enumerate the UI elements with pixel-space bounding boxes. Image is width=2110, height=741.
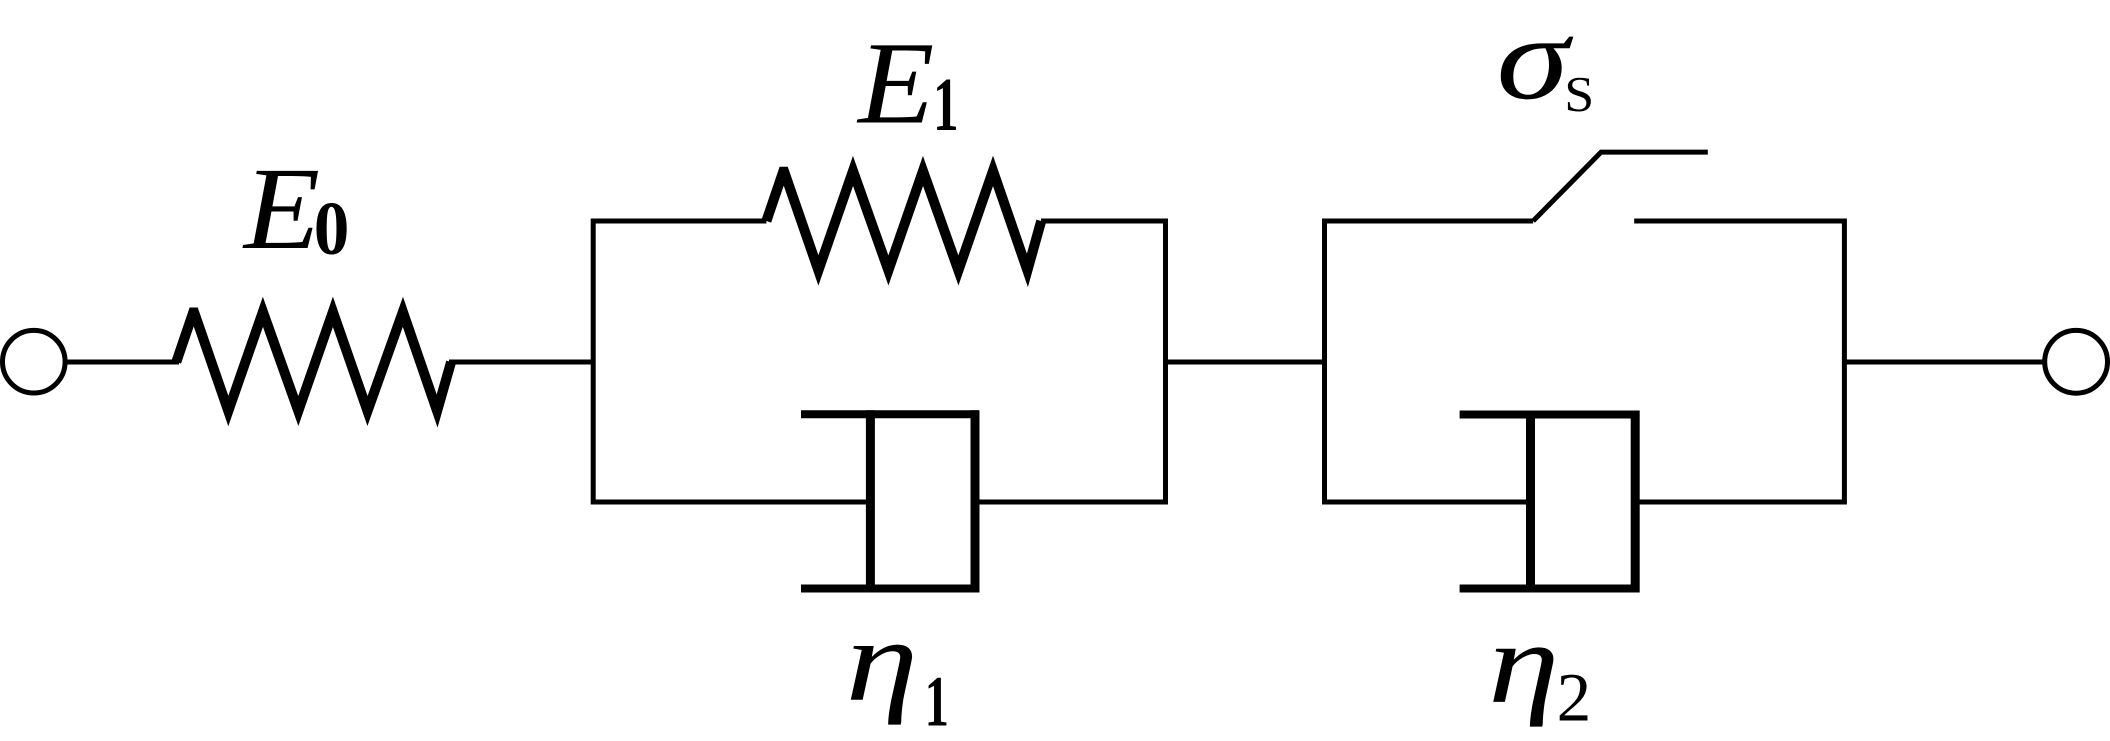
box 2 left/top/bottom-left frame	[1325, 221, 1534, 502]
dashpot eta2 piston	[1526, 411, 1535, 593]
right terminal circle	[2045, 330, 2108, 393]
svg-text:η: η	[1488, 600, 1559, 728]
wire between box 1 and box 2	[1166, 360, 1325, 365]
svg-text:σ: σ	[1496, 0, 1574, 124]
box 2 right/top/bottom-right frame	[1633, 221, 1844, 502]
dashpot eta1 top plate	[801, 410, 979, 418]
wire from spring E0 to box 1	[449, 360, 596, 365]
svg-text:2: 2	[1557, 658, 1592, 735]
dashpot eta2 bottom plate	[1460, 585, 1639, 593]
wire from left terminal to spring E0	[64, 360, 179, 365]
svg-text:0: 0	[314, 186, 350, 270]
svg-text:E: E	[242, 144, 320, 274]
spring E1 (top branch of box 1)	[766, 171, 1041, 271]
svg-text:E: E	[856, 19, 934, 149]
dashpot eta1 cylinder right wall	[971, 410, 980, 592]
dashpot eta2 top plate	[1460, 411, 1639, 419]
friction slider / switch blade (sigma_s element)	[1533, 152, 1708, 221]
wire from box 2 to right terminal	[1844, 360, 2046, 365]
left terminal circle	[3, 330, 66, 393]
dashpot eta1 bottom plate	[801, 585, 979, 593]
dashpot eta1 piston	[866, 410, 875, 592]
svg-text:1: 1	[925, 662, 949, 741]
box 1 (Kelvin element) left/top/bottom-left frame	[593, 221, 872, 502]
svg-text:η: η	[846, 595, 919, 725]
spring (resistor-style) E0	[176, 312, 451, 411]
svg-text:S: S	[1564, 68, 1594, 123]
dashpot eta2 cylinder right wall	[1631, 411, 1640, 593]
box 1 right/top/bottom-right frame	[973, 221, 1166, 502]
svg-text:1: 1	[933, 63, 959, 148]
